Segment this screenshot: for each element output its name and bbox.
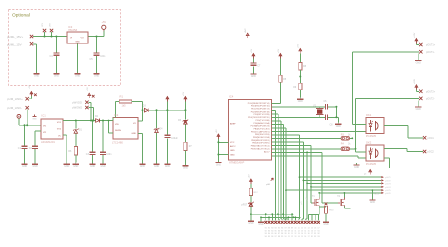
svg-text:15: 15 <box>301 236 303 238</box>
svg-text:GND: GND <box>64 166 69 168</box>
svg-text:IC4: IC4 <box>229 95 234 99</box>
svg-text:pOUT2-: pOUT2- <box>426 97 435 100</box>
svg-text:78L05Z: 78L05Z <box>68 28 77 32</box>
svg-text:PD4(T0/XCK/PCINT20): PD4(T0/XCK/PCINT20) <box>248 117 270 119</box>
svg-text:IC2: IC2 <box>114 113 119 117</box>
svg-text:S7: S7 <box>284 227 286 229</box>
svg-text:+5V: +5V <box>278 48 280 52</box>
svg-text:PB7(XTAL2/TOSC2): PB7(XTAL2/TOSC2) <box>251 147 270 150</box>
svg-text:OK1: OK1 <box>366 113 372 117</box>
svg-text:pOUT1-: pOUT1- <box>426 51 435 54</box>
svg-text:ADUM1201: ADUM1201 <box>41 140 55 144</box>
svg-text:12: 12 <box>291 236 293 238</box>
svg-text:S3: S3 <box>271 227 273 229</box>
svg-text:+5V: +5V <box>248 174 250 178</box>
svg-text:+5V: +5V <box>183 91 185 95</box>
svg-text:100uF: 100uF <box>171 138 178 140</box>
svg-text:GND: GND <box>416 109 421 111</box>
svg-text:ATMEGA8-P: ATMEGA8-P <box>229 161 245 165</box>
svg-text:S7: S7 <box>278 233 280 235</box>
svg-text:+5V: +5V <box>251 48 253 52</box>
svg-text:11: 11 <box>288 236 290 238</box>
svg-text:16: 16 <box>304 236 306 238</box>
svg-text:GND: GND <box>183 168 188 170</box>
svg-text:+5V: +5V <box>29 85 31 89</box>
svg-text:PD7(AIN1/PCINT23): PD7(AIN1/PCINT23) <box>251 125 270 128</box>
svg-text:pOC2: pOC2 <box>428 151 435 154</box>
svg-text:100n: 100n <box>100 56 106 58</box>
svg-text:AVC: AVC <box>244 28 247 33</box>
svg-text:15: 15 <box>308 230 310 232</box>
svg-text:S8: S8 <box>278 236 280 238</box>
svg-text:GND: GND <box>251 76 256 78</box>
svg-text:GND: GND <box>32 118 37 120</box>
svg-text:pSV6: pSV6 <box>385 193 391 195</box>
svg-text:S5: S5 <box>275 230 277 232</box>
svg-text:S6: S6 <box>281 227 283 229</box>
svg-text:14: 14 <box>304 230 306 232</box>
svg-text:S4: S4 <box>275 227 277 229</box>
svg-text:PC4N35: PC4N35 <box>366 134 377 138</box>
svg-text:SHDN: SHDN <box>115 130 121 132</box>
svg-text:S2: S2 <box>314 236 316 238</box>
svg-text:PB5(SCK/PCINT5): PB5(SCK/PCINT5) <box>252 143 270 145</box>
svg-text:pOC1: pOC1 <box>428 137 435 140</box>
svg-text:S1: S1 <box>317 230 319 232</box>
svg-text:13: 13 <box>298 233 300 235</box>
svg-text:13: 13 <box>301 230 303 232</box>
svg-text:GND: GND <box>100 166 105 168</box>
svg-text:PB3(MOSI/OC2A): PB3(MOSI/OC2A) <box>253 136 270 139</box>
svg-text:GND: GND <box>73 166 78 168</box>
svg-text:17: 17 <box>318 227 320 229</box>
svg-text:ADC7: ADC7 <box>264 150 270 153</box>
svg-text:S6: S6 <box>278 230 280 232</box>
svg-text:GND: GND <box>416 63 421 65</box>
svg-text:+5V: +5V <box>102 21 107 24</box>
svg-text:GND: GND <box>165 166 170 168</box>
svg-text:17: 17 <box>311 233 313 235</box>
svg-text:+5V: +5V <box>298 43 300 47</box>
svg-text:S7: S7 <box>275 236 277 238</box>
svg-text:+24V: +24V <box>414 32 416 38</box>
svg-text:14: 14 <box>298 236 300 238</box>
svg-text:VCC: VCC <box>230 142 235 144</box>
svg-text:GND: GND <box>131 133 136 135</box>
svg-text:S4: S4 <box>265 236 267 238</box>
svg-text:S1: S1 <box>311 236 313 238</box>
svg-text:pAR: pAR <box>266 183 271 186</box>
svg-text:13: 13 <box>304 227 306 229</box>
svg-text:S5: S5 <box>268 236 270 238</box>
svg-text:GND: GND <box>230 154 235 156</box>
svg-text:GND: GND <box>336 126 341 128</box>
svg-text:S3: S3 <box>317 236 319 238</box>
svg-text:16: 16 <box>314 227 316 229</box>
svg-text:GND: GND <box>370 202 375 204</box>
svg-text:GND: GND <box>354 167 359 169</box>
svg-text:pWGND: pWGND <box>72 106 82 110</box>
svg-text:pOUT1+: pOUT1+ <box>426 44 436 47</box>
svg-text:S9: S9 <box>284 233 286 235</box>
svg-text:LTC1480: LTC1480 <box>112 140 123 144</box>
svg-text:S7: S7 <box>281 230 283 232</box>
svg-text:PD3(INT1/OC2B): PD3(INT1/OC2B) <box>254 114 270 116</box>
svg-text:S9: S9 <box>291 227 293 229</box>
svg-text:GND: GND <box>94 76 99 78</box>
svg-text:10: 10 <box>294 227 296 229</box>
svg-text:S6: S6 <box>271 236 273 238</box>
svg-text:AREF: AREF <box>230 123 236 126</box>
svg-text:S4: S4 <box>271 230 273 232</box>
svg-text:PB6(XTAL1/TOSC1): PB6(XTAL1/TOSC1) <box>251 145 270 148</box>
svg-text:pSV4: pSV4 <box>385 187 391 189</box>
svg-text:GND: GND <box>154 166 159 168</box>
svg-text:VO: VO <box>133 123 136 125</box>
svg-text:PD5(T1/OC0B): PD5(T1/OC0B) <box>256 120 270 122</box>
svg-text:PD1(TXD/PCINT17): PD1(TXD/PCINT17) <box>251 109 270 111</box>
svg-text:15: 15 <box>304 233 306 235</box>
svg-text:S2: S2 <box>317 233 319 235</box>
svg-text:16: 16 <box>311 230 313 232</box>
svg-text:PD2(INT0/PCINT18): PD2(INT0/PCINT18) <box>251 111 270 113</box>
svg-text:GND: GND <box>248 223 253 225</box>
svg-text:pGN: pGN <box>375 194 380 196</box>
svg-text:VO: VO <box>81 37 84 39</box>
svg-text:pRST: pRST <box>241 205 247 207</box>
svg-text:GND: GND <box>140 166 145 168</box>
svg-text:pJ1: pJ1 <box>301 201 303 204</box>
svg-text:IC1: IC1 <box>42 114 47 118</box>
svg-text:12: 12 <box>294 233 296 235</box>
svg-text:11: 11 <box>291 233 293 235</box>
svg-text:R1: R1 <box>120 94 124 98</box>
svg-text:11: 11 <box>295 230 297 232</box>
svg-text:pUML_15V+: pUML_15V+ <box>7 35 23 39</box>
svg-text:pUM_LINK+: pUM_LINK+ <box>7 97 23 101</box>
svg-text:14: 14 <box>308 227 310 229</box>
svg-text:16: 16 <box>308 233 310 235</box>
svg-text:S8: S8 <box>281 233 283 235</box>
svg-text:GND: GND <box>323 224 328 226</box>
svg-text:GND: GND <box>33 166 38 168</box>
svg-text:pUM_LINK-: pUM_LINK- <box>7 106 22 110</box>
svg-text:GND: GND <box>34 76 39 78</box>
svg-text:PD0(RXD/PCINT16): PD0(RXD/PCINT16) <box>251 106 270 108</box>
svg-text:S2: S2 <box>268 227 270 229</box>
svg-text:+5V: +5V <box>87 87 89 91</box>
svg-text:VIN: VIN <box>115 124 119 126</box>
svg-text:pJ2: pJ2 <box>306 197 308 200</box>
svg-text:15: 15 <box>311 227 313 229</box>
svg-text:S9: S9 <box>281 236 283 238</box>
svg-text:pSV5: pSV5 <box>385 190 391 192</box>
svg-text:100n: 100n <box>106 154 112 156</box>
svg-text:13: 13 <box>294 236 296 238</box>
svg-text:PB1(OC1A/PCINT1): PB1(OC1A/PCINT1) <box>251 130 270 133</box>
svg-text:S4: S4 <box>268 233 270 235</box>
svg-text:pSV1: pSV1 <box>385 177 391 179</box>
svg-text:S1: S1 <box>314 233 316 235</box>
svg-text:GND: GND <box>75 76 80 78</box>
svg-text:+24V: +24V <box>414 78 416 84</box>
svg-text:S3: S3 <box>268 230 270 232</box>
svg-text:S3: S3 <box>265 233 267 235</box>
svg-text:PD6(AIN0/OC0A): PD6(AIN0/OC0A) <box>253 122 269 125</box>
svg-text:pUML_15V-: pUML_15V- <box>7 42 22 46</box>
svg-text:AVCC: AVCC <box>230 145 236 148</box>
svg-text:pWVDD: pWVDD <box>72 100 82 104</box>
svg-text:Optional: Optional <box>12 13 30 19</box>
svg-text:11: 11 <box>298 227 300 229</box>
svg-text:S5: S5 <box>278 227 280 229</box>
svg-text:pSV3: pSV3 <box>385 183 391 185</box>
svg-text:S5: S5 <box>271 233 273 235</box>
svg-text:+5V: +5V <box>216 129 218 133</box>
svg-text:OK2: OK2 <box>366 141 372 145</box>
svg-text:S8: S8 <box>288 227 290 229</box>
svg-text:S1: S1 <box>265 227 267 229</box>
svg-text:GND: GND <box>22 166 27 168</box>
svg-text:GND: GND <box>90 166 95 168</box>
svg-text:10: 10 <box>288 233 290 235</box>
svg-text:1k5: 1k5 <box>122 105 127 108</box>
svg-text:10: 10 <box>285 236 287 238</box>
svg-text:12: 12 <box>298 230 300 232</box>
svg-text:17: 17 <box>308 236 310 238</box>
svg-text:PB2(/SS/OC1B): PB2(/SS/OC1B) <box>255 134 270 136</box>
svg-text:GND: GND <box>216 164 221 166</box>
svg-text:10: 10 <box>291 230 293 232</box>
svg-text:pOUT2+: pOUT2+ <box>426 90 436 93</box>
svg-text:PB0(ICP1/CLKO): PB0(ICP1/CLKO) <box>254 128 270 130</box>
svg-text:PC6(/RESET/PCINT14): PC6(/RESET/PCINT14) <box>248 103 270 105</box>
svg-text:S9: S9 <box>288 230 290 232</box>
svg-text:S8: S8 <box>284 230 286 232</box>
svg-text:PC4N35: PC4N35 <box>366 162 377 166</box>
svg-text:14: 14 <box>301 233 303 235</box>
svg-text:GND: GND <box>258 224 263 226</box>
svg-text:GND: GND <box>230 150 235 152</box>
svg-text:GND: GND <box>298 101 303 103</box>
svg-text:VC: VC <box>58 136 61 138</box>
svg-text:12: 12 <box>301 227 303 229</box>
svg-text:pSV2: pSV2 <box>385 180 391 182</box>
svg-text:PB4(MISO/PCINT4): PB4(MISO/PCINT4) <box>251 140 270 142</box>
svg-text:17: 17 <box>314 230 316 232</box>
svg-text:GND: GND <box>54 76 59 78</box>
svg-text:S6: S6 <box>275 233 277 235</box>
svg-text:GND: GND <box>75 41 80 43</box>
svg-text:S2: S2 <box>265 230 267 232</box>
